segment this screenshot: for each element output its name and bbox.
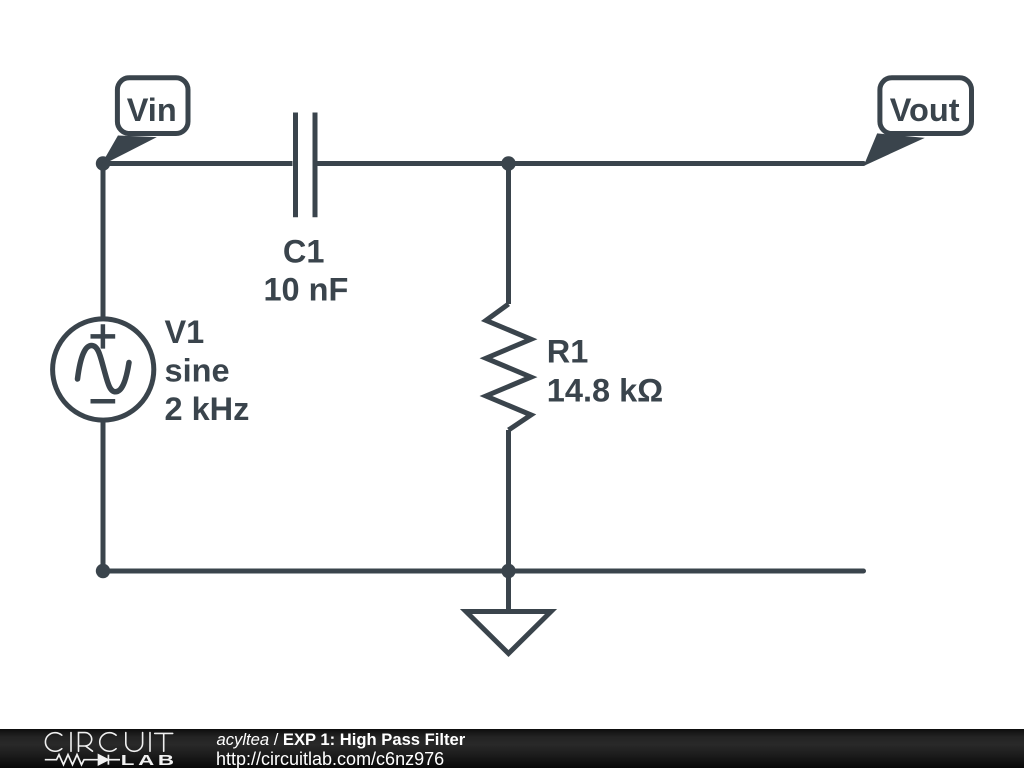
svg-text:Vout: Vout	[890, 92, 960, 128]
svg-text:R1: R1	[547, 334, 589, 370]
wire: V1 bottom to ground rail	[101, 423, 106, 572]
footer bar	[0, 729, 1024, 768]
svg-text:10 nF: 10 nF	[263, 272, 348, 308]
node: C1/R1 junction	[501, 156, 515, 170]
logo resistor-diode line	[45, 755, 120, 765]
logo CIRCUIT wordmark	[45, 733, 172, 752]
svg-text:LAB: LAB	[121, 752, 178, 768]
svg-text:acyltea / EXP 1: High Pass Fil: acyltea / EXP 1: High Pass Filter	[217, 730, 466, 749]
resistor R1	[486, 304, 531, 430]
wire: top node down to R1	[506, 164, 511, 305]
ground	[466, 571, 551, 654]
flag Vout	[866, 78, 972, 164]
svg-text:Vin: Vin	[127, 92, 177, 128]
wire: Vin node to C1 left plate	[103, 161, 293, 166]
svg-text:V1: V1	[165, 314, 205, 350]
svg-text:http://circuitlab.com/c6nz976: http://circuitlab.com/c6nz976	[216, 749, 444, 768]
node: V1/ground rail junction	[96, 564, 110, 578]
svg-text:sine: sine	[165, 353, 230, 389]
voltage source V1	[53, 319, 154, 420]
node: Vin junction	[96, 156, 110, 170]
svg-text:14.8 kΩ: 14.8 kΩ	[547, 372, 663, 408]
wire: C1 right plate to Vout point	[318, 161, 864, 166]
wire: Vin node down to V1 top	[101, 164, 106, 317]
svg-text:C1: C1	[283, 233, 325, 269]
node: R1/ground junction	[501, 564, 515, 578]
wire: bottom ground rail	[103, 569, 864, 574]
flag Vin	[103, 78, 188, 164]
wire: R1 bottom to ground rail	[506, 430, 511, 571]
svg-text:2 kHz: 2 kHz	[165, 391, 250, 427]
capacitor C1	[296, 113, 316, 218]
